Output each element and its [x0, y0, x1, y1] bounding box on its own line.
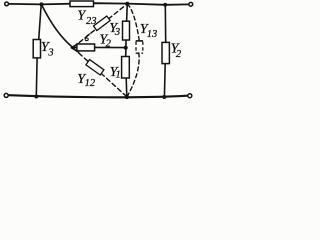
- svg-text:12: 12: [85, 78, 96, 89]
- svg-text:3: 3: [47, 48, 53, 59]
- svg-text:23: 23: [86, 16, 97, 27]
- svg-text:1: 1: [116, 70, 121, 81]
- svg-text:13: 13: [147, 29, 158, 40]
- svg-text:2: 2: [176, 49, 182, 60]
- svg-text:2: 2: [106, 39, 112, 50]
- svg-text:3: 3: [114, 27, 120, 38]
